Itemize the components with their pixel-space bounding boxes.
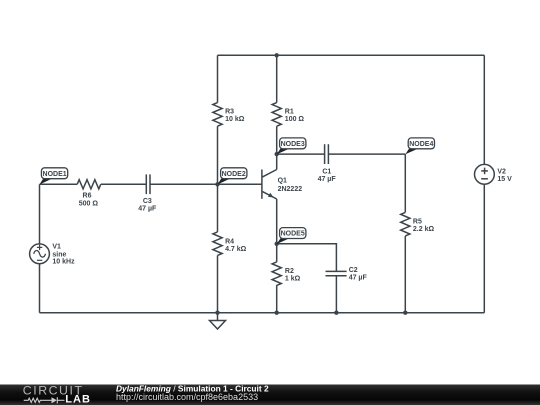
svg-text:500 Ω: 500 Ω bbox=[79, 201, 99, 208]
wire right rail V2 column bbox=[483, 55, 485, 164]
wire NODE4 down to R5 bbox=[404, 154, 406, 212]
source V1 bbox=[30, 244, 50, 264]
capacitor C1 bbox=[324, 144, 326, 164]
svg-text:NODE1: NODE1 bbox=[43, 171, 67, 178]
svg-text:47 µF: 47 µF bbox=[318, 176, 337, 183]
svg-text:R2: R2 bbox=[285, 268, 294, 275]
junction NODE3 bbox=[275, 152, 279, 156]
svg-text:NODE3: NODE3 bbox=[281, 141, 305, 148]
wire bottom rail bbox=[40, 312, 485, 314]
source V2 bbox=[475, 164, 495, 184]
svg-text:NODE5: NODE5 bbox=[281, 231, 305, 238]
junction NODE5 bbox=[275, 242, 279, 246]
svg-text:R5: R5 bbox=[413, 218, 422, 225]
wire C3 to NODE2 to Q1 base bbox=[150, 183, 262, 185]
wire NODE2 down to R4 bbox=[217, 184, 219, 232]
svg-text:2.2 kΩ: 2.2 kΩ bbox=[413, 226, 435, 233]
wire R2 to bottom rail bbox=[276, 285, 278, 313]
svg-text:47 µF: 47 µF bbox=[349, 275, 368, 282]
svg-text:10 kΩ: 10 kΩ bbox=[225, 116, 245, 123]
svg-text:V2: V2 bbox=[497, 168, 506, 175]
svg-text:R4: R4 bbox=[225, 238, 234, 245]
wire top rail bbox=[218, 54, 485, 56]
svg-text:15 V: 15 V bbox=[497, 176, 512, 183]
svg-text:V1: V1 bbox=[52, 244, 61, 251]
svg-text:2N2222: 2N2222 bbox=[278, 186, 303, 193]
wire NODE5 row to C2 bbox=[277, 244, 337, 272]
wire input row NODE1 to R6 bbox=[40, 183, 78, 185]
svg-text:NODE4: NODE4 bbox=[409, 141, 433, 148]
resistor R2 bbox=[272, 262, 281, 286]
resistor R5 bbox=[401, 212, 410, 236]
wire R1 bottom to NODE3 to collector bbox=[276, 126, 278, 169]
node NODE4 bbox=[405, 138, 434, 154]
wire R5 to bottom rail bbox=[404, 236, 406, 313]
node NODE1 bbox=[40, 168, 68, 185]
resistor R1 bbox=[272, 103, 281, 127]
svg-text:1 kΩ: 1 kΩ bbox=[285, 276, 301, 283]
junction bottom R2 bbox=[275, 311, 279, 315]
wire R3 bottom to NODE2 bbox=[217, 126, 219, 184]
junction NODE2 bbox=[215, 182, 219, 186]
svg-text:R6: R6 bbox=[83, 193, 92, 200]
resistor R3 bbox=[213, 103, 222, 127]
wire C2 to bottom rail bbox=[335, 276, 337, 313]
junction bottom C2 bbox=[334, 311, 338, 315]
node NODE3 bbox=[277, 138, 306, 154]
svg-text:100 Ω: 100 Ω bbox=[285, 116, 305, 123]
junction bottom R4 bbox=[215, 311, 219, 315]
transistor Q1 bbox=[262, 170, 277, 200]
svg-text:sine: sine bbox=[52, 251, 66, 258]
footer bar bbox=[0, 385, 540, 405]
resistor R4 bbox=[213, 232, 222, 256]
svg-text:C2: C2 bbox=[349, 267, 358, 274]
wire left rail V1 column bbox=[39, 184, 41, 244]
svg-text:R3: R3 bbox=[225, 108, 234, 115]
wire emitter to NODE5 to R2 bbox=[276, 199, 278, 262]
svg-text:47 µF: 47 µF bbox=[138, 206, 157, 213]
svg-text:4.7 kΩ: 4.7 kΩ bbox=[225, 246, 247, 253]
capacitor C3 bbox=[145, 174, 147, 194]
svg-text:Q1: Q1 bbox=[278, 177, 287, 184]
wire R6 to C3 bbox=[101, 183, 147, 185]
junction top rail R1 bbox=[275, 53, 279, 57]
svg-text:LAB: LAB bbox=[65, 394, 91, 405]
svg-text:C1: C1 bbox=[322, 168, 331, 175]
ground bbox=[210, 313, 226, 329]
svg-text:10 kHz: 10 kHz bbox=[52, 259, 75, 266]
svg-text:R1: R1 bbox=[285, 108, 294, 115]
wire R4 to bottom rail bbox=[217, 255, 219, 312]
svg-text:C3: C3 bbox=[143, 198, 152, 205]
junction bottom R5 bbox=[403, 311, 407, 315]
wire C1 to NODE4 bbox=[329, 153, 406, 155]
wire R3 column top bbox=[217, 55, 219, 102]
svg-text:http://circuitlab.com/cpf8e6eb: http://circuitlab.com/cpf8e6eba2533 bbox=[116, 392, 258, 402]
wire R1 column top bbox=[276, 55, 278, 102]
svg-text:NODE2: NODE2 bbox=[222, 171, 246, 178]
footer logo resistor-diode bbox=[24, 397, 65, 403]
node NODE2 bbox=[218, 168, 247, 185]
capacitor C2 bbox=[326, 270, 347, 272]
node NODE5 bbox=[277, 228, 306, 244]
resistor R6 bbox=[77, 180, 101, 189]
wire NODE3 row to C1 bbox=[277, 153, 325, 155]
